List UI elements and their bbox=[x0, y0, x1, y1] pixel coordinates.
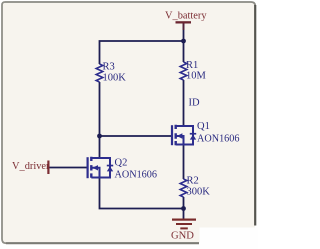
svg-text:10M: 10M bbox=[186, 71, 207, 82]
svg-text:Q2: Q2 bbox=[115, 158, 128, 169]
svg-text:R1: R1 bbox=[186, 60, 198, 71]
svg-text:GND: GND bbox=[171, 230, 194, 241]
svg-text:ID: ID bbox=[189, 98, 200, 109]
svg-text:300K: 300K bbox=[187, 187, 211, 198]
svg-text:Q1: Q1 bbox=[197, 121, 210, 132]
svg-text:AON1606: AON1606 bbox=[115, 169, 157, 180]
svg-text:R3: R3 bbox=[103, 61, 115, 72]
svg-text:V_driver: V_driver bbox=[12, 161, 50, 172]
svg-text:100K: 100K bbox=[103, 73, 127, 84]
svg-text:AON1606: AON1606 bbox=[197, 133, 239, 144]
svg-text:V_battery: V_battery bbox=[165, 11, 207, 22]
svg-text:R2: R2 bbox=[187, 176, 199, 187]
